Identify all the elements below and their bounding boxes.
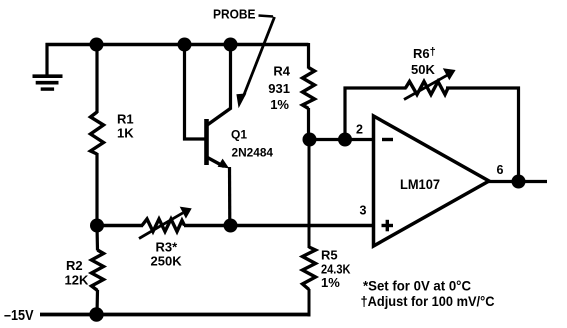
op-amp U1 LM107 (374, 116, 490, 246)
resistor R6 (variable) (406, 82, 449, 95)
wire: R5 top lead (308, 140, 311, 249)
svg-text:250K: 250K (151, 254, 183, 269)
svg-text:R6†: R6† (413, 46, 436, 61)
label R6 value (411, 46, 436, 77)
wire: feedback down (517, 87, 520, 182)
node: emitter mid junction (224, 219, 238, 233)
svg-text:–15V: –15V (4, 308, 34, 324)
wire: R1 top lead (95, 45, 98, 114)
node: collector-rail junction (224, 38, 238, 52)
svg-text:R5: R5 (321, 248, 338, 263)
node: output junction (512, 175, 526, 189)
svg-text:R2: R2 (66, 258, 83, 273)
svg-text:R1: R1 (117, 112, 134, 127)
svg-text:R3*: R3* (156, 240, 179, 255)
wire: top rail (46, 43, 309, 46)
svg-text:R4: R4 (273, 64, 290, 79)
wire: feedback top right (446, 86, 520, 89)
node: R4 / pin2 junction (303, 133, 317, 147)
wire: emitter vertical (228, 167, 232, 226)
svg-text:3: 3 (360, 204, 367, 218)
wire: ground stub (45, 43, 48, 75)
svg-text:1%: 1% (270, 97, 289, 112)
pin label 2 (356, 123, 363, 137)
svg-text:2N2484: 2N2484 (232, 145, 274, 159)
svg-text:1K: 1K (117, 126, 134, 141)
wire: R1 bottom lead (95, 153, 98, 226)
svg-text:1%: 1% (321, 275, 340, 290)
pin label 6 (497, 163, 504, 177)
ground (33, 76, 63, 89)
svg-text:Q1: Q1 (231, 128, 247, 142)
wire: feedback top left (344, 86, 407, 89)
wire: middle rail left (97, 224, 143, 228)
node: base-rail junction (178, 38, 192, 52)
wire: R2 bottom lead (95, 290, 99, 315)
label Q1 (231, 128, 273, 160)
resistor R4 (303, 68, 315, 109)
label PROBE (213, 7, 273, 21)
svg-text:931: 931 (268, 81, 290, 96)
probe arrow (236, 17, 274, 108)
wire: R5 bottom lead (308, 289, 311, 316)
node: -15V junction (89, 307, 103, 321)
R6 wiper arrow (404, 68, 456, 99)
wire: output (487, 180, 547, 183)
wire: base horizontal (183, 137, 206, 140)
svg-text:†Adjust for 100 mV/°C: †Adjust for 100 mV/°C (361, 294, 495, 309)
resistor R2 (92, 250, 104, 291)
label R1 value (117, 112, 134, 141)
svg-text:12K: 12K (65, 273, 89, 288)
wire: R2 top lead (95, 226, 99, 251)
svg-text:2: 2 (356, 123, 363, 137)
node: left mid junction (90, 219, 104, 233)
svg-text:*Set for 0V at 0°C: *Set for 0V at 0°C (363, 279, 471, 294)
wire: feedback up (343, 87, 346, 140)
label LM107 (400, 176, 440, 192)
svg-text:PROBE: PROBE (213, 7, 256, 21)
node: feedback junction (338, 133, 352, 147)
svg-text:6: 6 (497, 163, 504, 177)
resistor R1 (91, 112, 104, 154)
label -15V (4, 308, 34, 324)
wire: collector vertical (229, 45, 232, 110)
resistor R5 (303, 247, 316, 290)
wire: -15V rail (40, 313, 311, 317)
note: adjust for 100mV (361, 294, 495, 309)
label R4 value (268, 64, 290, 113)
R3 wiper arrow (139, 207, 192, 239)
wire: base vertical (183, 45, 186, 141)
label R3 value (151, 240, 183, 269)
resistor R3 (variable) (142, 219, 185, 232)
wire: inverting input (310, 138, 374, 141)
label R5 value (321, 248, 351, 291)
transistor Q1 (207, 108, 232, 168)
node: top-left junction (90, 38, 104, 52)
wire: middle rail right (184, 224, 374, 228)
wire: R4 top lead (307, 43, 310, 69)
svg-text:LM107: LM107 (400, 176, 440, 192)
pin label 3 (360, 204, 367, 218)
label R2 value (65, 258, 89, 288)
note: set for 0V (363, 279, 471, 294)
wire: R4 bottom lead (307, 108, 310, 140)
svg-text:50K: 50K (411, 62, 435, 77)
